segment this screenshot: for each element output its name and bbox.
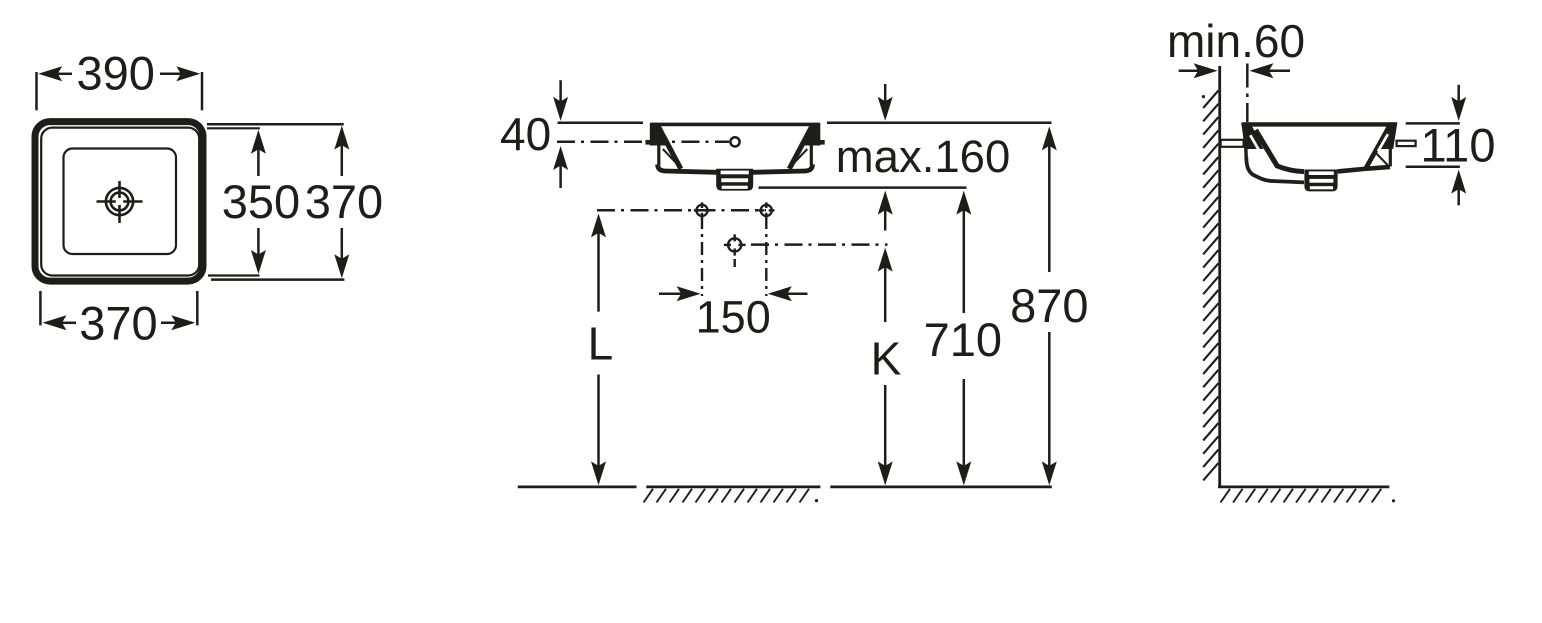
svg-text:710: 710 [924, 313, 1002, 366]
svg-text:370: 370 [305, 175, 383, 228]
svg-text:L: L [588, 318, 614, 370]
svg-text:150: 150 [696, 292, 771, 343]
svg-text:110: 110 [1421, 119, 1496, 172]
svg-text:870: 870 [1010, 279, 1088, 332]
svg-text:max.160: max.160 [836, 131, 1011, 182]
svg-text:350: 350 [222, 175, 300, 228]
svg-text:min.60: min.60 [1167, 15, 1305, 67]
svg-text:K: K [871, 332, 902, 384]
svg-text:370: 370 [79, 297, 157, 350]
svg-text:390: 390 [76, 47, 154, 100]
svg-text:40: 40 [500, 108, 551, 160]
